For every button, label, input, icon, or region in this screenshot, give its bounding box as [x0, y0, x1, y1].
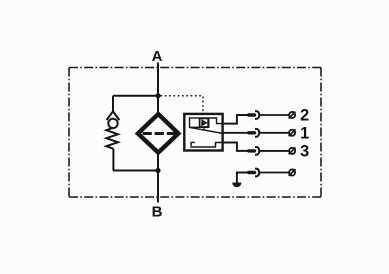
- wire terminal 2 routing: [223, 115, 248, 124]
- pilot dotted line vertical: [202, 97, 204, 114]
- wire ground pin routing: [237, 173, 248, 184]
- svg-text:2: 2: [300, 107, 309, 125]
- ground symbol: [233, 183, 241, 187]
- switch S1 inner bottom contour: [191, 142, 223, 147]
- node junction top: [155, 93, 160, 98]
- wire A-to-B main vertical: [157, 63, 159, 203]
- check valve V1 ball: [108, 119, 117, 128]
- wire terminal 1 routing: [223, 132, 248, 134]
- switch S1 contact rail: [190, 118, 209, 127]
- filter F1 diamond: [138, 114, 179, 153]
- svg-text:3: 3: [300, 143, 309, 161]
- wire terminal 3 routing: [223, 143, 248, 151]
- wire top branch horizontal: [113, 95, 158, 97]
- pressure switch S1 housing: [184, 114, 222, 151]
- switch S1 rail-to-terminal step: [209, 118, 223, 124]
- terminal circle 3: [289, 148, 296, 155]
- switch S1 pressure element square: [200, 118, 209, 127]
- enclosure dash-dot border: [69, 68, 321, 198]
- wire ground pin to terminal: [259, 172, 289, 174]
- connector plug pin 1: [247, 129, 259, 137]
- wire left branch lower: [112, 149, 114, 171]
- check valve V1 seat: [107, 111, 120, 120]
- svg-text:1: 1: [300, 125, 309, 143]
- terminal circle 1: [289, 129, 296, 136]
- connector plug pin 3: [247, 147, 259, 155]
- terminal circle 2: [289, 112, 296, 119]
- connector plug ground pin: [247, 169, 259, 177]
- switch S1 lever: [190, 127, 223, 133]
- terminal circle ground: [289, 169, 296, 176]
- switch S1 pressure glyph P: [202, 120, 207, 126]
- pilot dotted line horizontal: [161, 95, 204, 97]
- connector plug pin 2: [247, 111, 259, 119]
- filter F1 dashed element: [143, 132, 176, 135]
- wire pin 2 to terminal: [259, 114, 289, 116]
- wire pin 1 to terminal: [259, 132, 289, 134]
- node junction bottom: [155, 168, 160, 173]
- wire pin 3 to terminal: [259, 150, 289, 152]
- wire bottom branch horizontal: [113, 170, 158, 172]
- check valve V1 spring: [106, 128, 118, 149]
- svg-text:B: B: [152, 204, 163, 221]
- svg-text:A: A: [152, 48, 163, 65]
- switch S1 plunger: [203, 127, 205, 130]
- wire left branch upper: [112, 96, 114, 112]
